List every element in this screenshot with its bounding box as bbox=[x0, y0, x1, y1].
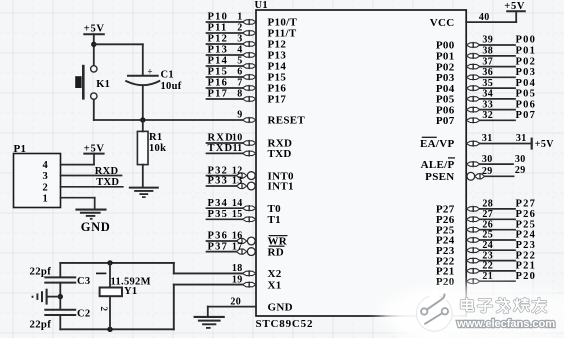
pin number 34 bbox=[482, 89, 493, 100]
pin number 25 bbox=[482, 230, 493, 241]
wire left branch verticals bbox=[59, 263, 61, 329]
svg-text:P23: P23 bbox=[516, 240, 537, 251]
wire net P34 to U1 pin 14 bbox=[207, 207, 243, 209]
svg-text:10: 10 bbox=[232, 133, 243, 144]
U1 pin 3 symbol bbox=[243, 41, 257, 47]
wire net P15 to U1 pin 6 bbox=[207, 76, 243, 78]
svg-text:P07: P07 bbox=[436, 115, 455, 127]
wire net P21 pin 22 bbox=[480, 270, 515, 272]
node P10 label bbox=[208, 12, 229, 23]
svg-text:RD: RD bbox=[268, 246, 285, 258]
svg-text:INT1: INT1 bbox=[268, 181, 294, 193]
svg-text:12: 12 bbox=[232, 165, 243, 176]
Y1 pin 2 digit rotated bbox=[98, 306, 108, 311]
svg-text:33: 33 bbox=[482, 99, 493, 110]
pin number 36 bbox=[482, 67, 493, 78]
U1 pin 22 symbol bbox=[466, 268, 480, 274]
svg-text:P16: P16 bbox=[208, 78, 229, 89]
pin number 14 bbox=[232, 198, 243, 209]
wire net RXD to U1 pin 10 bbox=[207, 142, 243, 144]
svg-text:40: 40 bbox=[479, 12, 490, 23]
pin number 2 bbox=[237, 23, 242, 34]
svg-text:13: 13 bbox=[232, 176, 243, 187]
svg-text:P01: P01 bbox=[516, 46, 537, 57]
wire pin 31 to +5V bbox=[480, 143, 532, 145]
svg-text:P07: P07 bbox=[516, 110, 537, 121]
node P34 label bbox=[208, 198, 229, 209]
C3 label bbox=[77, 276, 90, 287]
svg-text:P32: P32 bbox=[208, 165, 229, 176]
node RXD label bbox=[208, 133, 234, 144]
svg-text:3: 3 bbox=[237, 34, 242, 45]
svg-text:10uf: 10uf bbox=[161, 81, 182, 92]
pin number 10 bbox=[232, 133, 243, 144]
node P25 label bbox=[516, 219, 537, 230]
svg-text:P06: P06 bbox=[516, 99, 537, 110]
svg-text:RXD: RXD bbox=[95, 166, 119, 177]
U1 pin name RESET bbox=[268, 115, 306, 127]
node P00 label bbox=[516, 35, 537, 46]
P1 label bbox=[14, 143, 27, 155]
capacitor C1 bbox=[125, 67, 160, 86]
svg-text:TXD: TXD bbox=[96, 177, 119, 188]
wire top rail of crystal to X2 pin 18 bbox=[60, 263, 242, 274]
svg-text:RESET: RESET bbox=[268, 115, 306, 127]
svg-text:U1: U1 bbox=[255, 0, 268, 11]
U1 pin name P03 bbox=[436, 72, 455, 84]
U1 pin 31 symbol bbox=[466, 140, 480, 146]
node P26 label bbox=[516, 209, 537, 220]
pin number 35 bbox=[482, 78, 493, 89]
pin number 8 bbox=[237, 89, 242, 100]
P1 pin 3 bbox=[42, 171, 121, 182]
U1 pin 23 symbol bbox=[466, 258, 480, 264]
node 29 label bbox=[515, 165, 526, 176]
U1 pin name P25 bbox=[436, 224, 455, 236]
node P16 label bbox=[208, 78, 229, 89]
svg-text:1: 1 bbox=[237, 12, 242, 23]
svg-text:38: 38 bbox=[482, 46, 493, 57]
svg-text:RXD: RXD bbox=[208, 133, 234, 144]
U1 pin 27 symbol bbox=[466, 216, 480, 222]
wire net P32 to U1 pin 12 bbox=[207, 175, 237, 177]
svg-text:Y1: Y1 bbox=[124, 286, 137, 297]
wire net P01 pin 38 bbox=[480, 55, 515, 57]
svg-text:C3: C3 bbox=[77, 276, 90, 287]
wire crystal verticals bbox=[109, 263, 111, 329]
node junction crystal top bbox=[107, 260, 112, 265]
pin number 38 bbox=[482, 46, 493, 57]
wire C1 bottom to RESET rail bbox=[142, 85, 144, 120]
Y1 label bbox=[124, 286, 137, 297]
svg-text:ALE/P: ALE/P bbox=[421, 159, 455, 171]
pin number 26 bbox=[482, 219, 493, 230]
svg-text:32: 32 bbox=[482, 110, 493, 121]
pin number 13 bbox=[232, 176, 243, 187]
C3 value 22pf bbox=[30, 265, 52, 277]
pin number 21 bbox=[482, 271, 493, 282]
Y1 value 11.592M bbox=[111, 276, 151, 287]
svg-text:PSEN: PSEN bbox=[425, 171, 454, 183]
U1 pin 28 symbol bbox=[466, 206, 480, 212]
pin number 37 bbox=[482, 56, 493, 67]
svg-text:R1: R1 bbox=[149, 132, 162, 143]
wire net P17 to U1 pin 8 bbox=[207, 98, 243, 100]
svg-text:8: 8 bbox=[237, 89, 242, 100]
wire RESET net to U1 pin 9 bbox=[94, 119, 243, 121]
pin number 17 bbox=[232, 241, 243, 252]
U1 pin name WR bbox=[268, 236, 288, 248]
U1 pin name RD bbox=[268, 246, 285, 258]
wire pin 29 stub bbox=[485, 175, 514, 177]
wire pin 30 stub bbox=[480, 163, 513, 165]
U1 pin 33 symbol bbox=[466, 107, 480, 113]
wire net P06 pin 33 bbox=[480, 109, 515, 111]
svg-text:+5V: +5V bbox=[84, 24, 105, 35]
svg-text:K1: K1 bbox=[96, 79, 110, 90]
svg-text:P04: P04 bbox=[516, 78, 537, 89]
pin number 22 bbox=[482, 261, 493, 272]
node P13 label bbox=[208, 45, 229, 56]
svg-text:4: 4 bbox=[237, 45, 242, 56]
node P05 label bbox=[516, 89, 537, 100]
node P35 label bbox=[208, 209, 229, 220]
wire net TXD to U1 pin 11 bbox=[207, 152, 243, 154]
wire net P03 pin 36 bbox=[480, 76, 515, 78]
U1 pin name P13 bbox=[268, 50, 287, 62]
pin number 7 bbox=[237, 78, 242, 89]
svg-text:P15: P15 bbox=[208, 67, 229, 78]
U1 pin name P05 bbox=[436, 94, 455, 106]
GND label below P1 bbox=[81, 220, 111, 234]
U1 pin 29 symbol with bubble bbox=[467, 172, 485, 180]
pin number 3 bbox=[237, 34, 242, 45]
U1 pin 17 symbol bbox=[237, 248, 256, 256]
svg-text:21: 21 bbox=[482, 271, 493, 282]
U1 pin name X1 bbox=[268, 279, 282, 291]
svg-text:29: 29 bbox=[482, 166, 493, 177]
pin number 39 bbox=[482, 35, 493, 46]
U1 pin 10 symbol bbox=[243, 140, 257, 146]
node P20 label bbox=[516, 271, 537, 282]
R1 label bbox=[149, 132, 162, 143]
pin number 9 bbox=[237, 110, 242, 121]
U1 pin name P04 bbox=[436, 83, 455, 95]
U1 pin name P17 bbox=[268, 94, 287, 106]
K1 label bbox=[96, 79, 110, 90]
svg-text:36: 36 bbox=[482, 67, 493, 78]
wire net P05 pin 34 bbox=[480, 98, 515, 100]
U1 pin 26 symbol bbox=[466, 227, 480, 233]
svg-text:P12: P12 bbox=[208, 34, 229, 45]
U1 pin 21 symbol bbox=[466, 278, 480, 284]
U1 pin name P01 bbox=[436, 51, 455, 63]
ground at pin 20 bbox=[194, 317, 225, 328]
C2 value 22pf bbox=[30, 318, 52, 330]
wire net P25 pin 26 bbox=[480, 229, 515, 231]
node P15 label bbox=[208, 67, 229, 78]
pin number 4 bbox=[237, 45, 242, 56]
wire net P14 to U1 pin 5 bbox=[207, 65, 243, 67]
svg-text:STC89C52: STC89C52 bbox=[256, 318, 314, 330]
svg-text:2: 2 bbox=[42, 182, 48, 193]
node junction crystal bottom bbox=[107, 327, 112, 332]
svg-text:P02: P02 bbox=[516, 56, 537, 67]
pin number 33 bbox=[482, 99, 493, 110]
U1 pin 12 symbol bbox=[237, 172, 256, 180]
U1 pin name TXD bbox=[268, 148, 292, 160]
svg-text:VCC: VCC bbox=[430, 17, 455, 29]
svg-text:11: 11 bbox=[232, 143, 242, 154]
svg-text:6: 6 bbox=[237, 67, 242, 78]
svg-text:29: 29 bbox=[515, 165, 526, 176]
U1 pin name P23 bbox=[436, 245, 455, 257]
R1 value 10k bbox=[149, 143, 166, 154]
svg-text:P34: P34 bbox=[208, 198, 229, 209]
svg-text:P27: P27 bbox=[516, 199, 537, 210]
node P36 label bbox=[208, 231, 229, 242]
U1 pin 7 symbol bbox=[243, 85, 257, 91]
svg-text:+5V: +5V bbox=[535, 139, 554, 150]
svg-text:16: 16 bbox=[232, 231, 243, 242]
pin number 12 bbox=[232, 165, 243, 176]
wire VCC pin 40 to +5V bbox=[466, 11, 516, 22]
node TXD label bbox=[96, 177, 119, 188]
power +5V bar at EA pin bbox=[532, 138, 555, 150]
svg-text:30: 30 bbox=[515, 154, 526, 165]
svg-text:P36: P36 bbox=[208, 231, 229, 242]
wire P1 pin1 to ground bbox=[94, 198, 96, 210]
U1 pin name EA/VP with overline on EA bbox=[420, 137, 455, 150]
U1 pin 14 symbol bbox=[243, 205, 257, 211]
connector P1 bbox=[14, 154, 61, 208]
svg-text:TXD: TXD bbox=[208, 143, 234, 154]
pin number 24 bbox=[482, 240, 493, 251]
svg-text:15: 15 bbox=[232, 209, 243, 220]
node P37 label bbox=[208, 241, 229, 252]
svg-text:P17: P17 bbox=[268, 94, 287, 106]
svg-text:P20: P20 bbox=[516, 271, 537, 282]
U1 pin name RXD bbox=[268, 138, 293, 150]
wire net P27 pin 28 bbox=[480, 208, 515, 210]
node TXD label bbox=[208, 143, 234, 154]
U1 pin name T0 bbox=[268, 203, 282, 215]
wire net P12 to U1 pin 3 bbox=[207, 43, 243, 45]
svg-text:14: 14 bbox=[232, 198, 243, 209]
node P32 label bbox=[208, 165, 229, 176]
node P23 label bbox=[516, 240, 537, 251]
wire net P02 pin 37 bbox=[480, 66, 515, 68]
node P17 label bbox=[208, 89, 229, 100]
svg-text:17: 17 bbox=[232, 241, 243, 252]
node P07 label bbox=[516, 110, 537, 121]
node RXD label bbox=[95, 166, 119, 177]
wire net P24 pin 25 bbox=[480, 239, 515, 241]
svg-text:P37: P37 bbox=[208, 241, 229, 252]
wire bottom rail of crystal to X1 pin 19 bbox=[60, 285, 242, 330]
U1 pin name P00 bbox=[436, 40, 455, 52]
pin number 28 bbox=[482, 199, 493, 210]
node 31 label at +5V bbox=[516, 133, 527, 144]
U1 pin 39 symbol bbox=[466, 42, 480, 48]
U1 pin name P21 bbox=[436, 266, 455, 278]
svg-text:P10: P10 bbox=[208, 12, 229, 23]
wire net P10 to U1 pin 1 bbox=[207, 21, 243, 23]
svg-text:27: 27 bbox=[482, 209, 493, 220]
U1 pin 8 symbol bbox=[243, 96, 257, 102]
U1 pin 4 symbol bbox=[243, 52, 257, 58]
wire net P23 pin 24 bbox=[480, 249, 515, 251]
svg-text:P14: P14 bbox=[208, 56, 229, 67]
capacitor C3 bbox=[44, 277, 76, 282]
pin number 1 bbox=[237, 12, 242, 23]
U1 pin name P15 bbox=[268, 72, 287, 84]
svg-text:4: 4 bbox=[42, 160, 48, 171]
svg-text:39: 39 bbox=[482, 35, 493, 46]
svg-text:+: + bbox=[147, 67, 152, 77]
svg-text:34: 34 bbox=[482, 89, 493, 100]
svg-text:10k: 10k bbox=[149, 143, 166, 154]
node P02 label bbox=[516, 56, 537, 67]
wire midpoint to side ground bbox=[48, 296, 60, 298]
IC U1 STC89C52 microcontroller body bbox=[256, 10, 466, 316]
watermark url www.elecfans.com bbox=[456, 318, 555, 330]
U1 pin 9 symbol bbox=[243, 117, 257, 123]
pin number 11 bbox=[232, 143, 242, 154]
svg-text:C2: C2 bbox=[77, 308, 90, 319]
svg-text:P13: P13 bbox=[208, 45, 229, 56]
U1 pin name P22 bbox=[436, 255, 455, 267]
U1 pin name INT1 bbox=[268, 181, 294, 193]
watermark wash bbox=[378, 284, 564, 338]
svg-text:EA/VP: EA/VP bbox=[420, 138, 455, 150]
U1 pin 25 symbol bbox=[466, 237, 480, 243]
P1 pin 2 bbox=[42, 182, 122, 193]
svg-text:P17: P17 bbox=[208, 89, 229, 100]
P1 pin 1 bbox=[42, 194, 94, 205]
svg-text:P05: P05 bbox=[516, 89, 537, 100]
U1 pin name P26 bbox=[436, 214, 455, 226]
pin number 32 bbox=[482, 110, 493, 121]
node junction C1/R1/RESET bbox=[140, 117, 145, 122]
U1 pin name P20 bbox=[436, 276, 455, 288]
svg-text:22pf: 22pf bbox=[30, 318, 52, 330]
svg-text:C1: C1 bbox=[161, 70, 174, 81]
node P11 label bbox=[208, 23, 228, 34]
svg-text:30: 30 bbox=[482, 154, 493, 165]
wire net P35 to U1 pin 15 bbox=[207, 218, 243, 220]
svg-text:P1: P1 bbox=[14, 143, 27, 155]
switch K1 bbox=[75, 65, 97, 100]
svg-text:X2: X2 bbox=[268, 268, 282, 280]
pin number 27 bbox=[482, 209, 493, 220]
U1 pin name P14 bbox=[268, 61, 287, 73]
Y1 pin 1 digit rotated bbox=[96, 272, 106, 274]
U1 pin 32 symbol bbox=[466, 117, 480, 123]
node P22 label bbox=[516, 250, 537, 261]
svg-text:31: 31 bbox=[482, 133, 493, 144]
node junction caps midpoint bbox=[58, 294, 63, 299]
wire net P20 pin 21 bbox=[480, 280, 515, 282]
node P14 label bbox=[208, 56, 229, 67]
U1 pin 15 symbol bbox=[243, 216, 257, 222]
C1 value 10uf bbox=[161, 81, 182, 92]
U1 pin 13 symbol bbox=[237, 182, 256, 190]
P1 pin 4 bbox=[42, 160, 94, 171]
power +5V top right bbox=[504, 1, 525, 12]
U1 pin 19 symbol bbox=[243, 282, 257, 288]
pin number 6 bbox=[237, 67, 242, 78]
svg-text:22pf: 22pf bbox=[30, 265, 52, 277]
watermark text dianzifashaoyou bbox=[461, 298, 545, 312]
U1 pin name P11/T bbox=[268, 28, 297, 40]
svg-text:GND: GND bbox=[81, 220, 111, 234]
wire net P37 to U1 pin 17 bbox=[207, 251, 237, 253]
svg-text:31: 31 bbox=[516, 133, 527, 144]
node junction +5V/K1/C1 bbox=[91, 42, 96, 47]
resistor R1 bbox=[137, 131, 148, 164]
wire net P16 to U1 pin 7 bbox=[207, 87, 243, 89]
wire net P00 pin 39 bbox=[480, 44, 515, 46]
node P06 label bbox=[516, 99, 537, 110]
wire net P36 to U1 pin 16 bbox=[207, 240, 237, 242]
node P27 label bbox=[516, 199, 537, 210]
svg-text:P35: P35 bbox=[208, 209, 229, 220]
pin number 29 bbox=[482, 166, 493, 177]
pin number 16 bbox=[232, 231, 243, 242]
capacitor C2 bbox=[44, 310, 76, 315]
U1 pin 34 symbol bbox=[466, 96, 480, 102]
wire net P22 pin 23 bbox=[480, 260, 515, 262]
U1 pin name X2 bbox=[268, 268, 282, 280]
svg-text:www.elecfans.com: www.elecfans.com bbox=[456, 318, 555, 330]
U1 pin 37 symbol bbox=[466, 64, 480, 70]
svg-text:28: 28 bbox=[482, 199, 493, 210]
U1 pin name INT0 bbox=[268, 170, 294, 182]
pin number 19 bbox=[232, 274, 243, 285]
U1 pin 16 symbol bbox=[237, 237, 256, 245]
U1 pin name P07 bbox=[436, 115, 455, 127]
node P01 label bbox=[516, 46, 537, 57]
wire net P33 to U1 pin 13 bbox=[207, 185, 237, 187]
svg-text:TXD: TXD bbox=[268, 148, 292, 160]
pin number 18 bbox=[232, 263, 243, 274]
U1 pin name PSEN bbox=[425, 171, 454, 183]
svg-text:3: 3 bbox=[42, 171, 48, 182]
pin number 20 bbox=[230, 296, 241, 307]
wire net P11 to U1 pin 2 bbox=[207, 32, 243, 34]
C2 label bbox=[77, 308, 90, 319]
U1 pin 24 symbol bbox=[466, 247, 480, 253]
pin number 15 bbox=[232, 209, 243, 220]
svg-text:7: 7 bbox=[237, 78, 242, 89]
pin number 23 bbox=[482, 250, 493, 261]
U1 pin 6 symbol bbox=[243, 74, 257, 80]
svg-text:P03: P03 bbox=[516, 67, 537, 78]
U1 part value STC89C52 bbox=[256, 318, 314, 330]
node P12 label bbox=[208, 34, 229, 45]
U1 reference designator bbox=[255, 0, 268, 11]
wire net P04 pin 35 bbox=[480, 87, 515, 89]
pin number 31 bbox=[482, 133, 493, 144]
ground below P1 bbox=[75, 210, 106, 219]
node 30 label bbox=[515, 154, 526, 165]
svg-text:37: 37 bbox=[482, 56, 493, 67]
U1 pin 35 symbol bbox=[466, 85, 480, 91]
U1 pin name GND bbox=[268, 301, 293, 313]
U1 pin 1 symbol bbox=[243, 19, 257, 25]
node P21 label bbox=[516, 261, 537, 272]
